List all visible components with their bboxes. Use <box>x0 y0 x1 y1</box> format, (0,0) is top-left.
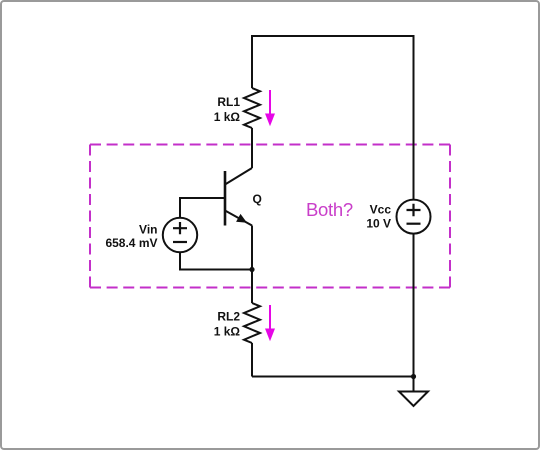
wire Vcc bottom to ground node <box>413 234 415 377</box>
dashed selection box <box>90 145 450 288</box>
source Vin <box>163 218 197 252</box>
wire right vertical top (Vcc to top rail) <box>413 35 415 200</box>
junction node ground <box>411 374 416 379</box>
collector lead <box>225 168 252 185</box>
plus sign <box>173 222 187 234</box>
emitter lead <box>225 211 252 226</box>
resistor RL2 <box>244 303 260 343</box>
svg-text:1 kΩ: 1 kΩ <box>214 324 241 338</box>
resistor RL1 <box>244 88 260 128</box>
wire bottom rail <box>252 376 414 378</box>
wire base to Vin <box>180 198 225 218</box>
wire emitter down to RL2 <box>251 226 253 304</box>
wire left vertical to RL1 <box>251 35 253 88</box>
svg-text:10 V: 10 V <box>366 217 391 231</box>
base bar <box>224 171 227 226</box>
current arrow I(RL2) <box>265 305 275 341</box>
junction node emitter/Vin <box>249 267 254 272</box>
ground <box>399 377 428 407</box>
wire Vin bottom to emitter node <box>180 252 252 269</box>
svg-text:Both?: Both? <box>306 199 353 220</box>
minus sign <box>407 223 421 225</box>
svg-text:Vcc: Vcc <box>370 203 392 217</box>
svg-text:RL1: RL1 <box>217 95 240 109</box>
wire RL2 to bottom rail <box>251 343 253 377</box>
wire top rail <box>252 35 414 37</box>
minus sign <box>173 241 187 243</box>
current arrow I(RL1) <box>265 90 275 126</box>
source Vcc <box>397 200 431 234</box>
svg-text:RL2: RL2 <box>217 310 240 324</box>
svg-text:658.4 mV: 658.4 mV <box>105 236 157 250</box>
wire RL1 to collector <box>251 128 253 168</box>
svg-text:Vin: Vin <box>139 223 157 237</box>
plus sign <box>407 204 421 216</box>
svg-text:1 kΩ: 1 kΩ <box>214 110 241 124</box>
transistor Q <box>225 168 252 226</box>
svg-text:Q: Q <box>253 192 262 206</box>
emitter arrowhead <box>236 214 247 223</box>
